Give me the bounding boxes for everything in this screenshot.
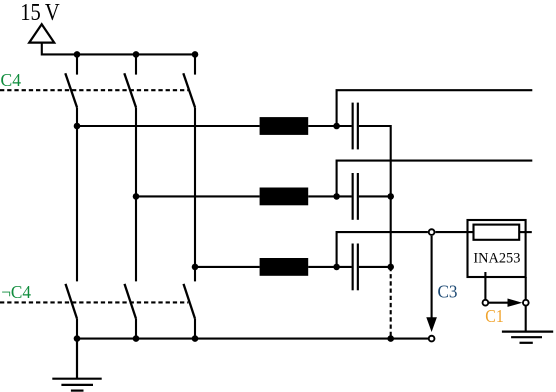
- wire: S2 to phase node B: [135, 107, 137, 196]
- voltage arrow C3: [431, 236, 433, 319]
- switch S4 bottom blade: [66, 284, 78, 319]
- wire: INA253 right side to ground: [525, 277, 527, 332]
- wire: neutral bus dashed to bottom rail: [390, 267, 392, 339]
- switch S5 bottom blade: [125, 284, 137, 319]
- ground (right): [502, 332, 553, 343]
- current arrow C1: [489, 302, 510, 304]
- switch S4 bottom stub col1: [76, 126, 78, 281]
- bottom rail wire: [77, 338, 429, 340]
- node dot top rail col1: [74, 51, 81, 58]
- svg-text:15 V: 15 V: [20, 0, 60, 26]
- ground (left): [52, 339, 101, 391]
- capacitor phase3 right plate: [357, 244, 359, 291]
- switch S1 top stub: [76, 54, 78, 74]
- wire: INA253 bottom pin stub: [484, 272, 486, 300]
- wire: L2 to cap node: [308, 195, 352, 197]
- node dot bottom rail col1: [74, 335, 81, 342]
- node dot bottom rail col2: [133, 335, 140, 342]
- capacitor phase1 right plate: [357, 103, 359, 150]
- wire: node B to L2: [136, 195, 260, 197]
- wire: S3 to phase node C: [194, 107, 196, 267]
- wire: phase2 output riser: [337, 161, 533, 197]
- switch S6 bottom stub col3: [194, 267, 196, 282]
- op-amp U1 INA253 outer box: [468, 220, 526, 277]
- terminal circle INA bottom pin: [483, 300, 489, 306]
- junction dot phase2 cap node: [333, 193, 340, 200]
- node dot bottom rail col3: [192, 335, 199, 342]
- node C dot: [192, 264, 199, 271]
- terminal circle phase3 sense: [429, 229, 435, 235]
- inductor L2: [260, 188, 309, 206]
- junction dot phase3 cap node: [333, 264, 340, 271]
- switch S2 top stub: [135, 54, 137, 74]
- control line not-C4 (dashed): [0, 301, 188, 303]
- junction dot bus phase3: [387, 264, 394, 271]
- wire: S1 to phase node A: [76, 107, 78, 126]
- svg-text:C1: C1: [485, 306, 504, 326]
- switch S5 bottom stub col2: [135, 196, 137, 281]
- shunt resistor inside INA253: [474, 225, 520, 240]
- wire: phase1 output riser: [337, 90, 533, 126]
- wire: phase2 cap to bus: [359, 195, 391, 197]
- wire: phase3 output riser to sense terminal: [337, 232, 428, 267]
- junction dot bus phase2: [387, 193, 394, 200]
- wire: S6 to bottom rail: [194, 319, 196, 339]
- node dot top rail col3: [192, 51, 199, 58]
- capacitor phase1 left plate: [352, 103, 354, 150]
- wire: node A to L1: [77, 125, 260, 127]
- capacitor phase2 right plate: [357, 173, 359, 220]
- svg-text:C4: C4: [1, 70, 22, 90]
- wire: supply stem to top rail: [42, 43, 196, 55]
- inductor L1: [260, 117, 309, 135]
- node dot bottom rail bus: [387, 335, 394, 342]
- switch S6 bottom blade: [184, 284, 196, 319]
- wire: S4 to bottom rail: [76, 319, 78, 339]
- switch S3 top blade: [183, 73, 195, 107]
- capacitor phase3 left plate: [352, 244, 354, 291]
- control line C4 (dashed): [0, 89, 188, 91]
- node A dot: [74, 123, 81, 130]
- svg-text:¬C4: ¬C4: [1, 282, 31, 302]
- wire: node C to L3: [195, 266, 260, 268]
- inductor L3: [260, 258, 309, 276]
- switch S3 top stub: [194, 54, 196, 74]
- wire: phase1 cap to bus: [359, 126, 391, 267]
- wire: L1 to cap C node: [308, 125, 352, 127]
- wire: L3 to cap node: [308, 266, 352, 268]
- node B dot: [133, 193, 140, 200]
- svg-text:C3: C3: [438, 281, 458, 301]
- junction dot phase1 cap node: [333, 123, 340, 130]
- power supply arrow symbol (15V): [29, 24, 54, 42]
- switch S1 top blade: [65, 73, 77, 107]
- wire: sense terminal to INA253: [435, 231, 473, 233]
- terminal circle INA right pin: [523, 300, 529, 306]
- capacitor phase2 left plate: [352, 173, 354, 220]
- wire: INA253 output stub right: [519, 231, 532, 233]
- wire: phase3 cap to bus: [359, 266, 391, 268]
- svg-text:INA253: INA253: [473, 250, 520, 266]
- node dot top rail col2: [133, 51, 140, 58]
- switch S2 top blade: [124, 73, 136, 107]
- terminal circle bottom rail end: [429, 336, 435, 342]
- wire: S5 to bottom rail: [135, 319, 137, 339]
